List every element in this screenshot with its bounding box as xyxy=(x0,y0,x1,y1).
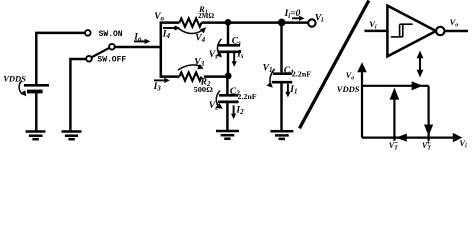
hysteresis loop bottom arrow xyxy=(396,134,407,142)
resistor R1 xyxy=(179,18,201,26)
node Vo vertical bus xyxy=(160,22,163,78)
node B junction dot xyxy=(278,19,286,27)
switch SW.ON terminal xyxy=(85,30,91,36)
voltage arrow V3 xyxy=(178,64,204,70)
current arrow I4 xyxy=(163,25,180,30)
svg-text:2.2nF: 2.2nF xyxy=(237,92,257,101)
node C junction dot xyxy=(225,73,232,80)
switch pivot terminal xyxy=(109,44,115,50)
graph x-axis Vi xyxy=(362,133,462,142)
switch arm xyxy=(91,48,109,58)
inversion bubble xyxy=(436,27,444,35)
current arrow Is xyxy=(232,52,237,67)
hysteresis loop left vertical xyxy=(390,88,400,141)
hysteresis loop top line xyxy=(362,81,429,90)
capacitor C2 xyxy=(218,76,238,130)
wire: top rail left segment xyxy=(160,21,180,23)
svg-text:VDDS: VDDS xyxy=(337,84,360,94)
ground (battery) xyxy=(26,132,46,140)
wire: bottom rail left segment xyxy=(160,75,180,77)
voltage arrow V1 xyxy=(267,69,275,88)
resistor R2 xyxy=(179,72,201,80)
inverter output wire xyxy=(445,30,468,32)
svg-text:SW.OFF: SW.OFF xyxy=(97,56,126,65)
ground (SW.OFF) xyxy=(62,132,82,140)
svg-text:500Ω: 500Ω xyxy=(194,85,213,94)
ground (C1) xyxy=(270,131,293,139)
current arrow Io xyxy=(134,39,150,44)
current arrow I3 xyxy=(154,78,170,83)
op-amp U1 schmitt trigger inverter triangle xyxy=(387,6,436,57)
graph y-axis Vo xyxy=(357,62,367,137)
switch SW.OFF terminal and wire to ground xyxy=(70,56,91,131)
section divider slash xyxy=(300,1,369,129)
capacitor Cs xyxy=(218,22,242,73)
hysteresis symbol xyxy=(391,24,413,37)
wire: top rail middle segment xyxy=(202,21,309,23)
double-headed arrow xyxy=(417,51,424,78)
hysteresis loop right vertical xyxy=(424,86,433,141)
inverter U1 input wire xyxy=(365,30,388,32)
voltage arrow Vs xyxy=(216,39,222,58)
svg-text:VT+: VT+ xyxy=(422,139,431,152)
svg-text:2MΩ: 2MΩ xyxy=(198,12,214,20)
current arrow Ii xyxy=(292,16,305,21)
ground (C2) xyxy=(216,131,239,139)
svg-text:VDDS: VDDS xyxy=(3,73,26,83)
VDDS polarity curved arrow xyxy=(19,81,26,97)
wire: switch common to node Vo xyxy=(115,46,162,48)
current arrow I1 xyxy=(285,84,290,98)
wire: bottom rail right segment xyxy=(204,75,226,77)
svg-text:2.2nF: 2.2nF xyxy=(292,70,312,79)
capacitor C1 xyxy=(272,22,293,130)
svg-text:SW.ON: SW.ON xyxy=(99,30,123,39)
terminal Vi xyxy=(308,19,315,26)
voltage arrow V2 xyxy=(215,91,222,109)
current arrow I2 xyxy=(231,105,236,119)
node A junction dot xyxy=(225,19,232,26)
voltage arrow V4 xyxy=(179,27,206,33)
battery VDDS source xyxy=(24,33,85,131)
